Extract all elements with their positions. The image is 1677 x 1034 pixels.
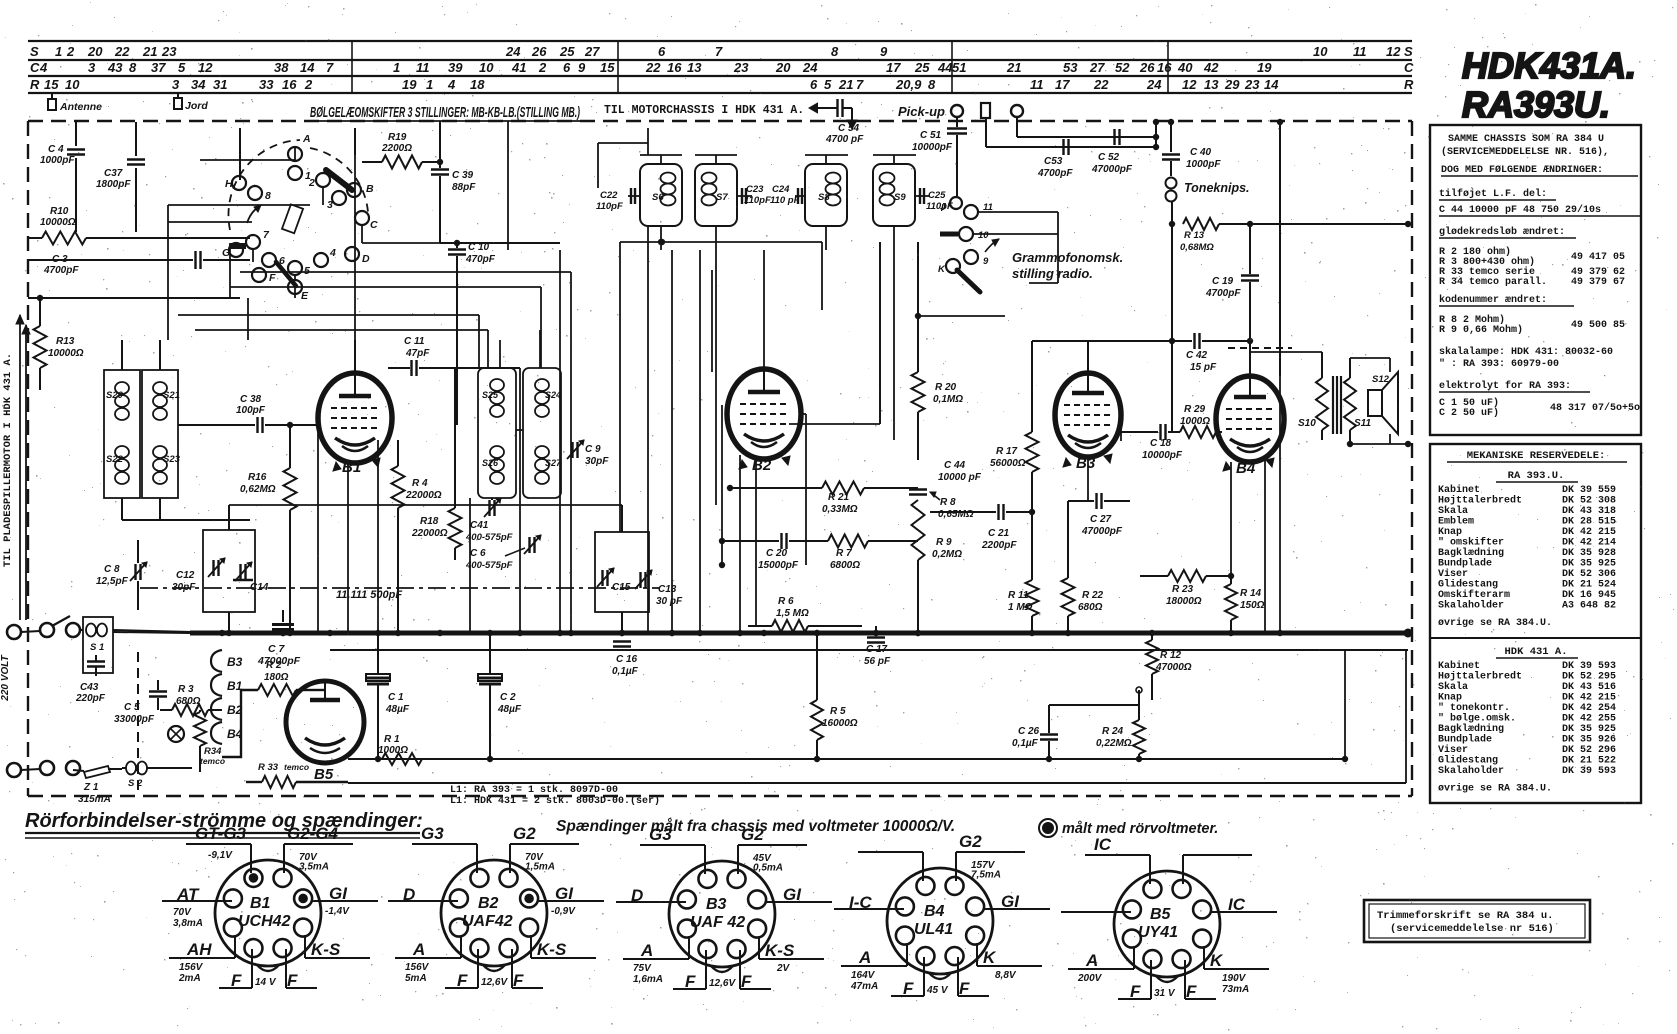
capacitor C17 xyxy=(864,626,891,667)
svg-text:G3: G3 xyxy=(421,824,444,843)
svg-text:glødekredsløb ændret:: glødekredsløb ændret: xyxy=(1439,226,1565,238)
svg-text:-1,4V: -1,4V xyxy=(325,906,350,917)
svg-text:1: 1 xyxy=(55,44,62,59)
node model header HDK431A xyxy=(1462,45,1636,86)
wire b4 plumb xyxy=(1068,457,1088,501)
svg-text:S23: S23 xyxy=(163,454,181,465)
svg-text:0,33MΩ: 0,33MΩ xyxy=(822,504,858,515)
svg-text:156V: 156V xyxy=(405,962,430,973)
tube socket B5 UY41 xyxy=(1061,835,1277,1001)
svg-text:Højttalerbredt: Højttalerbredt xyxy=(1438,671,1522,683)
svg-text:10000Ω: 10000Ω xyxy=(40,217,76,228)
node mechanical parts HDK431A xyxy=(1438,646,1616,795)
svg-text:C 21: C 21 xyxy=(988,528,1010,539)
wire B4 top xyxy=(1222,340,1250,376)
svg-text:S20: S20 xyxy=(106,390,124,401)
svg-text:Bagklædning: Bagklædning xyxy=(1438,547,1504,559)
node L1 note xyxy=(450,784,660,807)
svg-text:R 20: R 20 xyxy=(935,382,957,393)
svg-text:R13: R13 xyxy=(56,336,75,347)
svg-text:Højttalerbredt: Højttalerbredt xyxy=(1438,495,1522,507)
svg-text:Knap: Knap xyxy=(1438,693,1462,704)
capacitor C53 xyxy=(1037,139,1073,179)
svg-text:C 54: C 54 xyxy=(838,123,860,134)
wire IF can tops xyxy=(598,143,916,188)
svg-text:C 44 10000 pF 48 750 29/10s: C 44 10000 pF 48 750 29/10s xyxy=(1439,204,1601,216)
svg-text:DOG MED FØLGENDE ÆNDRINGER:: DOG MED FØLGENDE ÆNDRINGER: xyxy=(1441,164,1603,176)
wire pickup bus xyxy=(986,117,1159,150)
svg-text:R 1: R 1 xyxy=(384,734,400,745)
transformer S6 can xyxy=(640,164,682,226)
svg-text:315mA: 315mA xyxy=(78,794,111,805)
capacitor C12 trimmer box xyxy=(172,530,255,612)
svg-text:R 29: R 29 xyxy=(1184,404,1206,415)
wire vertical long 700 xyxy=(620,242,700,633)
capacitor C15 box xyxy=(595,532,649,612)
svg-text:6800Ω: 6800Ω xyxy=(830,560,860,571)
svg-text:23: 23 xyxy=(161,44,177,59)
svg-text:DK 42 255: DK 42 255 xyxy=(1562,714,1616,725)
svg-text:K: K xyxy=(983,948,997,967)
svg-text:BØLGELÆOMSKIFTER 3 STILLINGER:: BØLGELÆOMSKIFTER 3 STILLINGER: MB-KB-LB.… xyxy=(310,105,580,121)
capacitor C2 xyxy=(478,630,522,762)
svg-text:1,6mA: 1,6mA xyxy=(633,974,663,985)
svg-text:156V: 156V xyxy=(179,962,204,973)
svg-text:tilføjet L.F. del:: tilføjet L.F. del: xyxy=(1439,188,1547,200)
wire dial-cord rail 3 xyxy=(28,75,1412,77)
capacitor C22 xyxy=(596,188,640,212)
svg-text:DK 35 925: DK 35 925 xyxy=(1562,724,1616,735)
svg-text:15: 15 xyxy=(600,60,615,75)
svg-text:stilling radio.: stilling radio. xyxy=(1012,266,1093,281)
svg-text:56 pF: 56 pF xyxy=(864,656,891,667)
svg-text:16000Ω: 16000Ω xyxy=(822,718,858,729)
wire tuning gang link xyxy=(140,587,660,589)
svg-text:39: 39 xyxy=(448,60,463,75)
svg-text:R 4: R 4 xyxy=(412,478,428,489)
svg-text:0,68MΩ: 0,68MΩ xyxy=(1180,242,1214,253)
svg-text:(servicemeddelelse nr 516): (servicemeddelelse nr 516) xyxy=(1390,923,1554,935)
svg-text:" : RA 393: 60979-00: " : RA 393: 60979-00 xyxy=(1439,358,1559,370)
wire long drop 6 xyxy=(1277,376,1283,636)
tube B4 xyxy=(1216,376,1284,477)
svg-text:2mA: 2mA xyxy=(178,973,201,984)
switch arrow xyxy=(247,205,261,223)
svg-text:B3: B3 xyxy=(706,896,727,913)
inductor S22 xyxy=(106,446,129,484)
wire dial-cord rail 2 xyxy=(28,59,1412,61)
capacitor C51 xyxy=(912,117,967,196)
svg-text:8: 8 xyxy=(265,190,271,202)
svg-text:Viser: Viser xyxy=(1438,744,1468,756)
tube B3 xyxy=(1055,373,1121,472)
switch rotor dashed arc2 xyxy=(310,148,368,212)
wire long drop 4 xyxy=(519,368,521,633)
svg-text:2V: 2V xyxy=(776,963,791,974)
svg-text:22: 22 xyxy=(645,60,661,75)
svg-text:3: 3 xyxy=(327,199,333,211)
svg-text:Trimmeforskrift se RA 384 u.: Trimmeforskrift se RA 384 u. xyxy=(1377,910,1553,922)
resistor R14 xyxy=(1225,576,1265,636)
svg-text:E: E xyxy=(301,290,309,302)
svg-text:G2: G2 xyxy=(741,825,764,844)
capacitor C6 trimmer xyxy=(465,535,541,571)
svg-text:R 34 temco parall.: R 34 temco parall. xyxy=(1439,276,1547,288)
svg-text:41: 41 xyxy=(511,60,526,75)
svg-text:A: A xyxy=(858,948,871,967)
svg-text:5: 5 xyxy=(178,60,186,75)
svg-text:2: 2 xyxy=(308,177,315,189)
svg-text:A3 648 82: A3 648 82 xyxy=(1562,601,1616,612)
svg-text:9: 9 xyxy=(880,44,888,59)
svg-text:R 22: R 22 xyxy=(1082,590,1104,601)
svg-text:(SERVICEMEDDELELSE NR. 516),: (SERVICEMEDDELELSE NR. 516), xyxy=(1441,146,1609,158)
node bottom title xyxy=(25,810,423,838)
svg-text:42: 42 xyxy=(1203,60,1219,75)
svg-text:31: 31 xyxy=(213,77,227,92)
svg-text:45 V: 45 V xyxy=(926,985,949,996)
svg-text:B1: B1 xyxy=(342,459,361,476)
svg-text:K: K xyxy=(1210,951,1224,970)
svg-text:43: 43 xyxy=(107,60,123,75)
svg-text:målt med rörvoltmeter.: målt med rörvoltmeter. xyxy=(1062,821,1218,837)
fuse Z1 xyxy=(73,766,122,805)
node service notes panel xyxy=(1430,125,1641,435)
node bottom note1 xyxy=(556,818,955,835)
wire B2 sides xyxy=(719,242,880,568)
resistor R11 xyxy=(1008,580,1039,636)
node R1 value xyxy=(378,745,408,756)
svg-text:Glidestang: Glidestang xyxy=(1438,755,1498,767)
svg-text:2200pF: 2200pF xyxy=(981,540,1017,551)
svg-text:Glidestang: Glidestang xyxy=(1438,579,1498,591)
svg-text:10000pF: 10000pF xyxy=(1142,450,1183,461)
svg-text:øvrige se RA 384.U.: øvrige se RA 384.U. xyxy=(1438,783,1552,795)
node pickup xyxy=(898,103,1023,119)
svg-text:17: 17 xyxy=(1055,77,1070,92)
svg-text:G3: G3 xyxy=(649,825,672,844)
svg-text:S8: S8 xyxy=(818,192,830,203)
junction dots bus xyxy=(219,630,921,636)
svg-text:150Ω: 150Ω xyxy=(1240,600,1265,611)
svg-text:0,65MΩ: 0,65MΩ xyxy=(938,509,974,520)
resistor R4 xyxy=(392,440,442,633)
svg-text:L1: RA 393 = 1 stk. 8097D-00: L1: RA 393 = 1 stk. 8097D-00 xyxy=(450,784,618,796)
switch small slug xyxy=(282,204,303,233)
svg-text:33: 33 xyxy=(259,77,274,92)
svg-text:C 20: C 20 xyxy=(766,548,788,559)
resistor S10 primary xyxy=(1250,352,1328,440)
inductor S27 can xyxy=(523,368,562,498)
svg-text:elektrolyt for RA 393:: elektrolyt for RA 393: xyxy=(1439,380,1571,392)
capacitor C23 xyxy=(737,184,771,206)
svg-text:21: 21 xyxy=(838,77,853,92)
svg-text:37: 37 xyxy=(151,60,166,75)
svg-text:K: K xyxy=(938,264,946,275)
svg-text:4700pF: 4700pF xyxy=(1205,288,1241,299)
svg-text:C 6: C 6 xyxy=(470,548,486,559)
svg-text:C41: C41 xyxy=(470,520,489,531)
svg-text:skalalampe: HDK 431: 80032-60: skalalampe: HDK 431: 80032-60 xyxy=(1439,346,1613,358)
wire rails right xyxy=(1342,650,1348,762)
capacitor C14 trimmer xyxy=(233,562,269,593)
node title wave-switch xyxy=(310,105,580,121)
svg-text:DK 43 318: DK 43 318 xyxy=(1562,506,1616,517)
svg-text:UL41: UL41 xyxy=(914,921,953,938)
capacitor C1 xyxy=(366,633,410,762)
svg-text:34: 34 xyxy=(191,77,206,92)
svg-text:R 6: R 6 xyxy=(778,596,794,607)
wire rail 783 xyxy=(348,650,1406,783)
svg-text:25: 25 xyxy=(559,44,575,59)
node vertical note pladespiller xyxy=(2,353,14,567)
svg-text:RA 393.U.: RA 393.U. xyxy=(1508,470,1565,482)
wire left long horizontal xyxy=(28,297,240,299)
svg-text:27: 27 xyxy=(1089,60,1105,75)
wire dashed border bottom xyxy=(28,795,1412,797)
tube socket B4 UL41 xyxy=(834,832,1050,998)
svg-text:6: 6 xyxy=(563,60,571,75)
svg-text:Skala: Skala xyxy=(1438,681,1468,693)
svg-text:A: A xyxy=(640,941,653,960)
svg-text:C 16: C 16 xyxy=(616,654,638,665)
svg-text:C 39: C 39 xyxy=(452,170,474,181)
svg-text:10: 10 xyxy=(978,230,989,241)
svg-text:C13: C13 xyxy=(658,584,677,595)
wire long drop 1 xyxy=(347,462,349,633)
capacitor C5 xyxy=(114,680,167,725)
svg-text:21: 21 xyxy=(1006,60,1021,75)
lamp SKA xyxy=(168,726,184,742)
node dial row S numbers xyxy=(30,44,1413,59)
svg-text:75V: 75V xyxy=(633,963,652,974)
resistor R8 R9 xyxy=(912,497,974,636)
capacitor C19 xyxy=(1205,224,1259,376)
svg-text:R 9: R 9 xyxy=(936,537,952,548)
wire vertical long 648 xyxy=(648,128,675,636)
svg-text:16: 16 xyxy=(667,60,682,75)
svg-text:2: 2 xyxy=(304,77,313,92)
resistor S11 secondary xyxy=(1344,358,1371,444)
inductor S23 xyxy=(153,446,181,484)
wire r12 drop xyxy=(1151,690,1153,759)
svg-text:10: 10 xyxy=(65,77,80,92)
svg-text:47000pF: 47000pF xyxy=(1091,164,1133,175)
wire mains switch blade upper xyxy=(52,616,70,626)
svg-text:DK 35 928: DK 35 928 xyxy=(1562,548,1616,559)
capacitor C37 xyxy=(96,122,145,232)
resistor R10 xyxy=(28,206,250,245)
svg-text:S24: S24 xyxy=(545,390,561,400)
svg-text:R10: R10 xyxy=(50,206,69,217)
svg-text:R 17: R 17 xyxy=(996,446,1018,457)
svg-text:23: 23 xyxy=(733,60,749,75)
svg-text:20,9: 20,9 xyxy=(895,77,922,92)
svg-text:DK 42 215: DK 42 215 xyxy=(1562,693,1616,704)
svg-text:Kabinet: Kabinet xyxy=(1438,484,1480,496)
svg-text:7: 7 xyxy=(326,60,334,75)
node bottom note2 xyxy=(1039,819,1218,837)
svg-text:40: 40 xyxy=(1177,60,1193,75)
svg-text:B3: B3 xyxy=(1076,455,1096,472)
svg-text:0,2MΩ: 0,2MΩ xyxy=(932,549,962,560)
svg-text:R 12: R 12 xyxy=(1160,650,1182,661)
svg-text:49 417 05: 49 417 05 xyxy=(1571,252,1625,263)
svg-text:12: 12 xyxy=(1386,44,1401,59)
tube B2 xyxy=(727,369,801,474)
capacitor C7 xyxy=(257,610,301,667)
svg-text:53: 53 xyxy=(1063,60,1078,75)
svg-text:C23: C23 xyxy=(746,184,764,195)
svg-text:B2: B2 xyxy=(752,457,772,474)
svg-text:K-S: K-S xyxy=(537,940,567,959)
svg-text:30 pF: 30 pF xyxy=(656,596,683,607)
svg-text:1,5mA: 1,5mA xyxy=(525,862,555,873)
svg-text:S 2: S 2 xyxy=(128,778,143,789)
svg-text:L1: HDK 431 = 2 stk. 8003D-00.: L1: HDK 431 = 2 stk. 8003D-00.(ser) xyxy=(450,795,660,807)
svg-text:K-S: K-S xyxy=(311,940,341,959)
svg-text:48 317 07/5o+5o: 48 317 07/5o+5o xyxy=(1550,402,1640,414)
svg-text:B3: B3 xyxy=(227,655,243,669)
svg-text:52: 52 xyxy=(1115,60,1130,75)
inductor S25 can xyxy=(478,368,516,498)
svg-text:10000pF: 10000pF xyxy=(912,142,953,153)
wire B4 dashed grid xyxy=(1228,347,1292,349)
svg-text:7: 7 xyxy=(715,44,723,59)
svg-text:4700 pF: 4700 pF xyxy=(825,134,864,145)
svg-text:12: 12 xyxy=(1182,77,1197,92)
svg-text:C 2: C 2 xyxy=(500,692,516,703)
svg-text:11: 11 xyxy=(416,60,430,75)
svg-text:16: 16 xyxy=(282,77,297,92)
svg-text:R18: R18 xyxy=(420,516,439,527)
svg-text:C: C xyxy=(370,219,378,231)
svg-text:9: 9 xyxy=(983,256,989,267)
svg-text:22: 22 xyxy=(114,44,130,59)
resistor R18 xyxy=(411,368,462,560)
svg-text:25: 25 xyxy=(914,60,930,75)
svg-text:R 13: R 13 xyxy=(1184,230,1205,241)
svg-text:" omskifter: " omskifter xyxy=(1438,537,1504,549)
resistor R15 toneknips xyxy=(1180,218,1411,253)
svg-text:15000pF: 15000pF xyxy=(758,560,799,571)
svg-text:Jord: Jord xyxy=(185,100,208,112)
svg-text:1000pF: 1000pF xyxy=(40,155,75,166)
svg-text:1800pF: 1800pF xyxy=(96,179,131,190)
svg-text:48µF: 48µF xyxy=(385,704,410,715)
svg-text:UY41: UY41 xyxy=(1138,924,1178,941)
wire dial-cord rail 4 xyxy=(28,92,1412,94)
wire b4 cathode drop xyxy=(1231,460,1265,633)
capacitor C54 xyxy=(824,99,864,145)
svg-text:27: 27 xyxy=(584,44,600,59)
capacitor C26 xyxy=(1012,705,1058,762)
svg-text:AH: AH xyxy=(186,940,212,959)
svg-text:1000pF: 1000pF xyxy=(1186,159,1221,170)
wire long drop 2 xyxy=(375,440,381,636)
switch toneknips xyxy=(1166,178,1250,433)
wire B2 top xyxy=(763,250,765,369)
svg-text:2: 2 xyxy=(66,44,75,59)
wire dashed mains divider xyxy=(137,652,139,795)
resistor R33 xyxy=(246,762,348,788)
svg-text:24: 24 xyxy=(802,60,818,75)
tube socket B2 UAF42 xyxy=(388,824,604,990)
svg-text:190V: 190V xyxy=(1222,973,1247,984)
svg-text:S 1: S 1 xyxy=(90,642,104,653)
svg-text:R 5: R 5 xyxy=(830,706,846,717)
svg-text:13: 13 xyxy=(1204,77,1219,92)
svg-text:R 8: R 8 xyxy=(940,497,956,508)
capacitor C44 xyxy=(909,460,982,500)
svg-text:H: H xyxy=(225,178,233,190)
svg-text:4: 4 xyxy=(447,77,456,92)
svg-text:G2-G4: G2-G4 xyxy=(287,824,339,843)
node dial row R numbers xyxy=(30,77,1414,92)
wire IF can bottoms xyxy=(620,226,894,505)
svg-text:S10: S10 xyxy=(1298,418,1316,429)
svg-text:A: A xyxy=(302,133,311,145)
svg-text:0,1µF: 0,1µF xyxy=(612,666,639,677)
svg-text:3: 3 xyxy=(88,60,96,75)
wire c12 box stem xyxy=(226,505,232,636)
svg-text:C 2 50 uF): C 2 50 uF) xyxy=(1439,407,1499,419)
svg-text:DK 43 516: DK 43 516 xyxy=(1562,682,1616,693)
resistor R7 xyxy=(828,535,918,572)
svg-text:B4: B4 xyxy=(1236,460,1256,477)
wire dashed border right xyxy=(1411,121,1413,796)
resistor R23 xyxy=(1140,570,1234,607)
svg-text:14 V: 14 V xyxy=(255,977,277,988)
svg-text:22: 22 xyxy=(1093,77,1109,92)
svg-text:47000Ω: 47000Ω xyxy=(1155,662,1192,673)
svg-text:13: 13 xyxy=(687,60,702,75)
svg-text:70V: 70V xyxy=(173,907,192,918)
node mains terminal upper xyxy=(7,623,80,639)
wire B3 box xyxy=(1040,348,1088,415)
node model header RA393U xyxy=(1462,84,1610,125)
svg-text:49 379 67: 49 379 67 xyxy=(1571,277,1625,288)
wire grammofon frame xyxy=(973,212,1058,283)
svg-text:-0,9V: -0,9V xyxy=(551,906,576,917)
svg-text:R: R xyxy=(30,77,40,92)
speaker S12 xyxy=(1350,358,1398,434)
svg-text:S25: S25 xyxy=(482,390,499,400)
svg-text:164V: 164V xyxy=(851,970,876,981)
node dial row C numbers xyxy=(30,60,1414,75)
svg-text:Grammofonomsk.: Grammofonomsk. xyxy=(1012,250,1123,265)
svg-text:Emblem: Emblem xyxy=(1438,516,1474,528)
wire long drop 3 xyxy=(440,250,560,633)
svg-text:20: 20 xyxy=(775,60,791,75)
svg-text:6: 6 xyxy=(810,77,818,92)
svg-text:C37: C37 xyxy=(104,168,123,179)
svg-text:C 9: C 9 xyxy=(585,444,601,455)
transformer S7 can xyxy=(695,164,737,226)
capacitor C3 xyxy=(28,251,250,276)
svg-text:1: 1 xyxy=(393,60,400,75)
svg-text:R 23: R 23 xyxy=(1172,584,1194,595)
capacitor C11 xyxy=(388,336,520,376)
svg-text:UAF42: UAF42 xyxy=(462,913,513,930)
svg-text:47mA: 47mA xyxy=(850,981,878,992)
svg-text:C12: C12 xyxy=(176,570,195,581)
svg-text:S: S xyxy=(30,44,39,59)
wire switch area frame xyxy=(28,126,355,238)
resistor R2 xyxy=(258,660,310,696)
svg-text:51: 51 xyxy=(952,60,966,75)
svg-text:20: 20 xyxy=(87,44,103,59)
